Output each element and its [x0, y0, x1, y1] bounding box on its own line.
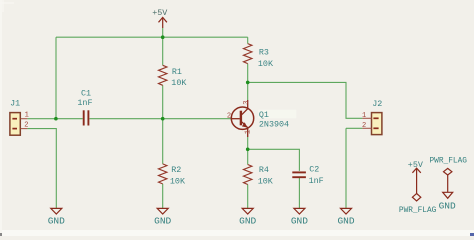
svg-text:GND: GND	[337, 216, 354, 227]
svg-text:C1: C1	[81, 88, 91, 98]
svg-text:R2: R2	[171, 165, 181, 175]
svg-text:J2: J2	[372, 99, 382, 109]
svg-text:1nF: 1nF	[309, 176, 324, 186]
svg-text:GND: GND	[239, 216, 256, 227]
svg-text:1nF: 1nF	[77, 98, 92, 108]
svg-text:10K: 10K	[258, 176, 274, 186]
svg-text:GND: GND	[48, 216, 65, 227]
svg-text:10K: 10K	[258, 59, 274, 69]
svg-text:10K: 10K	[170, 176, 186, 186]
svg-text:PWR_FLAG: PWR_FLAG	[399, 207, 437, 215]
svg-text:GND: GND	[154, 216, 171, 227]
svg-text:J1: J1	[10, 99, 20, 109]
svg-text:1: 1	[245, 130, 253, 134]
svg-text:3: 3	[243, 101, 251, 105]
svg-text:2: 2	[24, 122, 28, 130]
svg-text:+5V: +5V	[408, 160, 423, 170]
svg-text:2: 2	[227, 112, 231, 120]
svg-text:1: 1	[362, 112, 366, 120]
svg-text:GND: GND	[291, 216, 308, 227]
svg-text:GND: GND	[439, 200, 456, 211]
svg-text:2: 2	[362, 122, 366, 130]
svg-text:R1: R1	[172, 67, 182, 77]
svg-text:C2: C2	[309, 165, 319, 175]
svg-text:PWR_FLAG: PWR_FLAG	[430, 157, 468, 165]
svg-text:2N3904: 2N3904	[259, 119, 289, 129]
svg-text:+5V: +5V	[152, 8, 167, 18]
svg-text:1: 1	[25, 112, 29, 120]
svg-text:R3: R3	[259, 48, 269, 58]
svg-text:R4: R4	[259, 165, 269, 175]
svg-text:10K: 10K	[171, 78, 187, 88]
